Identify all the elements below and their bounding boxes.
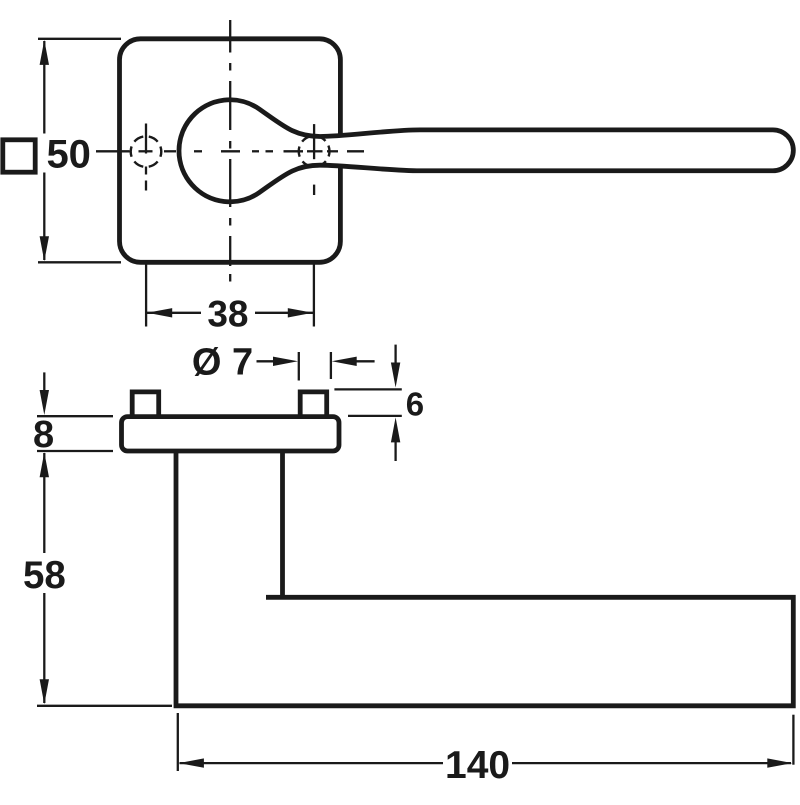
svg-text:50: 50 [46,133,91,177]
fixing hole left (dashed circle) [131,136,162,167]
svg-text:58: 58 [23,554,66,597]
dimension 38 arrowheads [147,308,313,317]
dimension 8 arrows [43,372,45,392]
dimension 140 arrowheads [179,758,792,767]
lever handle outline (front view, teardrop neck + bar) [179,100,793,202]
dimension 8 extension lines [37,416,113,451]
dimension 50 extension lines [38,39,121,262]
svg-text:8: 8 [33,414,54,456]
svg-text:6: 6 [406,386,424,423]
side view rose plate [122,417,340,451]
dimension 58 bottom extension line [37,705,172,707]
side view left fixing pin [132,392,159,418]
square spindle symbol [3,140,35,172]
dimension 6 extension lines [334,389,401,416]
dimension 38 line [147,312,313,314]
side view neck and lever outline [176,452,793,706]
fixing hole right (dashed circle) [299,136,330,167]
dimension 6 arrows [394,345,396,461]
dimension diameter 7 arrows and extension lines [257,352,375,381]
vertical centerline of rose [229,20,231,282]
dimension 38 extension lines [146,264,314,327]
fixing hole right crosshair [313,124,315,195]
horizontal centerline of rose and handle [96,150,364,152]
dimension 140 line [180,762,792,764]
dimension 50 arrowheads [40,40,49,261]
svg-text:Ø 7: Ø 7 [192,342,253,384]
svg-text:38: 38 [207,294,248,335]
side view right fixing pin [300,392,327,418]
rose plate (front view, rounded square) [120,39,341,262]
dimension 58 line [43,453,45,703]
fixing hole left crosshair [145,124,147,191]
side view neck right edge [280,452,285,597]
svg-text:140: 140 [445,744,510,787]
dimension 50 line [43,41,45,260]
dimension 140 extension lines [178,713,794,771]
dimension 58 bottom arrowhead [40,679,49,704]
